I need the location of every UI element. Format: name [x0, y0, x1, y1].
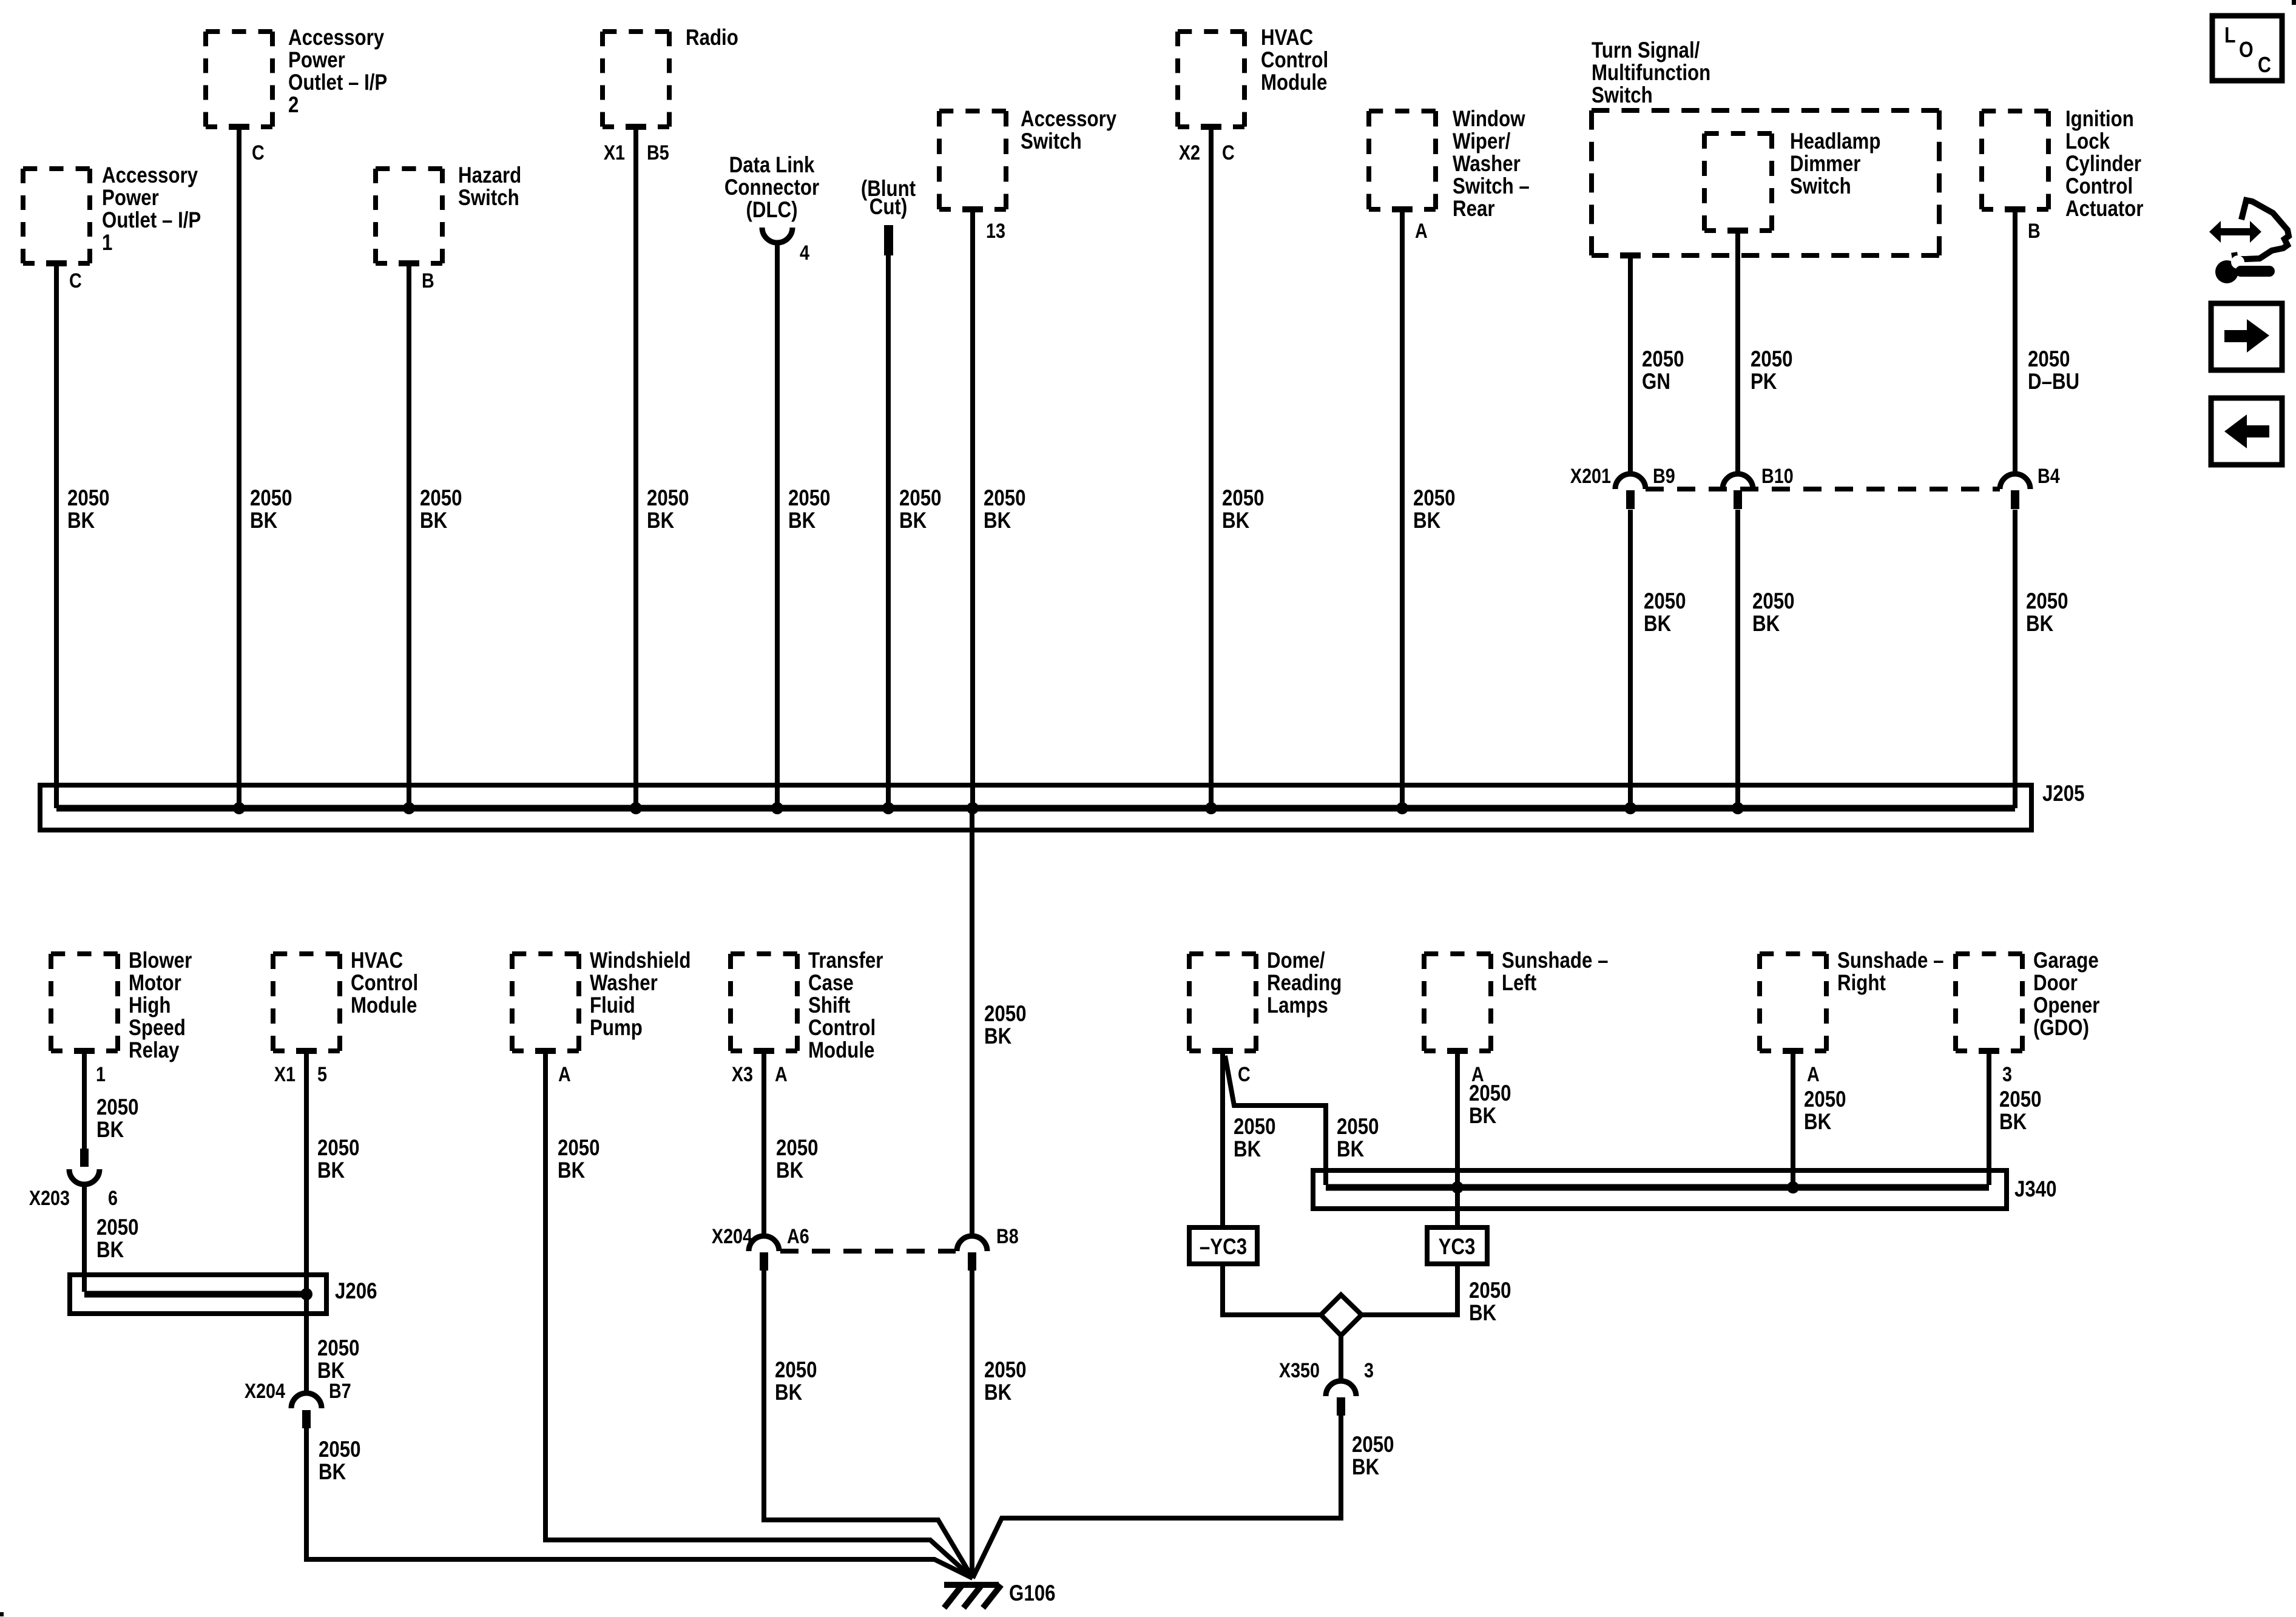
wire label 2050 BK (Sunshade Right): [1804, 1087, 1846, 1135]
wire label 2050 BK (HVAC mid): [317, 1136, 360, 1183]
svg-text:Dimmer: Dimmer: [1790, 152, 1860, 177]
pin labels X1 5 (HVAC bottom): [274, 1063, 327, 1086]
dashed connector line X201: [1646, 487, 2000, 491]
svg-text:Relay: Relay: [129, 1038, 179, 1063]
splice pack J205: [40, 785, 2031, 830]
wire label 2050 PK: [1751, 347, 1793, 394]
pin label A (Washer Pump): [558, 1063, 571, 1086]
svg-text:Window: Window: [1453, 107, 1525, 132]
wire 2050 BK: X350 to G106: [973, 1416, 1341, 1578]
svg-text:BK: BK: [558, 1158, 585, 1183]
wire 2050 BK: X201 B10 to J205: [1735, 510, 1740, 808]
wire label 2050 BK (APO1): [67, 486, 110, 533]
wire: Radio B5 to J205: [633, 129, 638, 808]
svg-text:Cylinder: Cylinder: [2065, 152, 2141, 177]
component box: Radio: [603, 25, 738, 132]
svg-text:BK: BK: [1804, 1110, 1831, 1135]
svg-text:High: High: [129, 993, 171, 1018]
svg-text:Turn Signal/: Turn Signal/: [1592, 38, 1700, 63]
svg-text:3: 3: [1364, 1359, 1374, 1382]
svg-text:Washer: Washer: [1453, 152, 1521, 177]
wire label 2050 BK (HVAC top): [1222, 486, 1264, 533]
connector X201 label: [1570, 465, 1611, 488]
svg-text:Reading: Reading: [1267, 971, 1342, 996]
component box: HVAC Control Module (X1): [273, 948, 418, 1056]
wire label 2050 BK (Dome left): [1234, 1115, 1276, 1162]
svg-text:Accessory: Accessory: [288, 25, 384, 50]
svg-text:GN: GN: [1642, 370, 1670, 394]
svg-text:Control: Control: [808, 1016, 876, 1041]
svg-text:Washer: Washer: [590, 971, 658, 996]
wire 2050 BK: X204 A6 to G106: [764, 1271, 973, 1578]
svg-text:BK: BK: [1469, 1301, 1496, 1326]
wire 2050 BK: X201 B9 to J205: [1628, 510, 1633, 808]
svg-text:2050: 2050: [2026, 589, 2068, 614]
wire 2050 BK: Washer Pump to G106: [545, 1053, 973, 1578]
svg-text:Speed: Speed: [129, 1016, 186, 1041]
label J206: [335, 1279, 377, 1304]
wire label 2050 BK (below J206): [317, 1336, 360, 1383]
svg-text:Door: Door: [2033, 971, 2078, 996]
svg-text:Data Link: Data Link: [729, 153, 815, 178]
wire 2050 BK: X201 B4 to J205: [2013, 510, 2017, 808]
svg-text:Lamps: Lamps: [1267, 993, 1328, 1018]
svg-text:2050: 2050: [96, 1215, 139, 1240]
icon: arrow left box: [2211, 398, 2282, 465]
component box: HVAC Control Module (X2): [1178, 25, 1328, 132]
svg-text:HVAC: HVAC: [351, 948, 403, 973]
component box: Sunshade - Left: [1424, 948, 1608, 1056]
svg-text:BK: BK: [420, 508, 447, 533]
svg-text:Right: Right: [1837, 971, 1886, 996]
wire label 2050 BK (A6 chain): [775, 1358, 817, 1405]
wire: blunt cut to J205: [886, 254, 891, 808]
wire label 2050 BK (below J205): [984, 1002, 1027, 1049]
wire: DLC 4 to J205: [775, 240, 780, 808]
svg-text:(GDO): (GDO): [2033, 1016, 2089, 1041]
svg-text:BK: BK: [984, 508, 1011, 533]
svg-text:Rear: Rear: [1453, 197, 1495, 221]
pin label C (APO2): [252, 141, 265, 164]
svg-text:BK: BK: [1222, 508, 1249, 533]
svg-text:2050: 2050: [984, 1002, 1027, 1027]
svg-text:2050: 2050: [788, 486, 831, 511]
label J340: [2014, 1177, 2057, 1202]
svg-text:5: 5: [317, 1063, 327, 1086]
svg-text:BK: BK: [899, 508, 927, 533]
svg-text:J206: J206: [335, 1279, 377, 1304]
svg-text:B9: B9: [1653, 465, 1675, 488]
pin label 1 (Blower Relay): [96, 1063, 106, 1086]
svg-text:B7: B7: [329, 1380, 351, 1403]
wire 2050 BK: X203 to J206: [82, 1182, 87, 1292]
wire label 2050 BK (below YC3): [1469, 1278, 1511, 1326]
svg-text:4: 4: [800, 241, 809, 265]
wire 2050 BK: Sunshade Right to J340: [1791, 1053, 1795, 1187]
connector X203 cavity 6: [29, 1149, 118, 1210]
svg-text:D–BU: D–BU: [2028, 370, 2079, 394]
pin label B (Ignition Lock): [2028, 220, 2041, 243]
svg-text:2050: 2050: [1234, 1115, 1276, 1139]
wire: Hazard B to J205: [407, 266, 411, 808]
component box: Accessory Power Outlet - I/P 2: [206, 25, 387, 132]
svg-text:X204: X204: [245, 1380, 286, 1403]
component box: Hazard Switch: [376, 163, 521, 268]
svg-text:O: O: [2239, 38, 2254, 62]
svg-text:Opener: Opener: [2033, 993, 2099, 1018]
svg-text:Ignition: Ignition: [2065, 107, 2134, 132]
svg-text:Actuator: Actuator: [2065, 197, 2144, 221]
svg-text:2050: 2050: [1337, 1115, 1379, 1139]
wire label 2050 BK (X350 chain): [1352, 1433, 1394, 1480]
svg-text:2050: 2050: [250, 486, 292, 511]
wire label 2050 BK (Radio): [647, 486, 689, 533]
svg-text:A: A: [775, 1063, 788, 1086]
svg-text:BK: BK: [319, 1460, 346, 1485]
svg-text:Outlet – I/P: Outlet – I/P: [288, 70, 387, 95]
svg-text:BK: BK: [776, 1158, 803, 1183]
junction dots on J340: [1451, 1181, 1799, 1193]
svg-text:2050: 2050: [317, 1136, 360, 1161]
svg-text:Sunshade –: Sunshade –: [1502, 948, 1608, 973]
splice pack J206: [70, 1275, 326, 1314]
component box: Accessory Switch: [939, 107, 1116, 214]
svg-text:BK: BK: [1752, 612, 1780, 636]
wire: -YC3 to diamond junction: [1223, 1266, 1321, 1315]
svg-text:X1: X1: [274, 1063, 295, 1086]
svg-text:A6: A6: [787, 1225, 809, 1248]
icon: power mirror adjust (arrow/outline/wrench): [2209, 200, 2289, 283]
svg-text:Switch: Switch: [1790, 174, 1851, 199]
wire label 2050 BK (B4): [2026, 589, 2068, 636]
wire label 2050 BK (Blower upper): [96, 1095, 139, 1143]
svg-text:Outlet – I/P: Outlet – I/P: [102, 208, 201, 233]
svg-text:6: 6: [108, 1187, 118, 1210]
svg-text:Garage: Garage: [2033, 948, 2099, 973]
icon: arrow right box: [2211, 303, 2282, 370]
svg-text:2050: 2050: [776, 1136, 819, 1161]
wire: APO2 C to J205: [237, 129, 241, 808]
svg-text:BK: BK: [2026, 612, 2053, 636]
svg-text:13: 13: [986, 220, 1005, 243]
svg-text:BK: BK: [317, 1158, 345, 1183]
svg-text:J205: J205: [2042, 781, 2085, 806]
wire 2050 BK: X204 B8 to G106: [970, 1271, 974, 1578]
svg-text:A: A: [1807, 1063, 1820, 1086]
svg-text:X3: X3: [732, 1063, 753, 1086]
wire label 2050 BK (B7 chain): [319, 1437, 361, 1485]
wire 2050 BK: Blower Relay to X203: [82, 1053, 87, 1151]
svg-text:Module: Module: [808, 1038, 874, 1063]
svg-text:A: A: [1415, 220, 1428, 243]
wire 2050 GN: Turn Signal switch to X201 B9: [1628, 258, 1633, 475]
svg-text:B4: B4: [2038, 465, 2060, 488]
component box: Transfer Case Shift Control Module: [731, 948, 883, 1063]
svg-text:BK: BK: [96, 1118, 124, 1143]
pin label C (Dome): [1238, 1063, 1251, 1086]
component: blunt cut terminal: [861, 177, 916, 255]
svg-text:Cut): Cut): [869, 195, 907, 220]
wire 2050 BK: GDO 3 to J340: [1987, 1053, 1991, 1185]
svg-text:2050: 2050: [775, 1358, 817, 1383]
connector X204 cavity B7: [245, 1380, 351, 1428]
wire 2050 PK: Headlamp Dimmer to X201 B10: [1735, 233, 1740, 475]
terminal YC3: [1427, 1227, 1487, 1264]
diamond junction node: [1321, 1295, 1362, 1335]
wire label 2050 BK (Sunshade Left): [1469, 1081, 1511, 1129]
svg-text:Power: Power: [288, 48, 345, 73]
wire: diamond to X350: [1339, 1335, 1343, 1382]
connector X204 cavity B8: [957, 1225, 1019, 1271]
svg-text:Switch –: Switch –: [1453, 174, 1530, 199]
svg-text:2050: 2050: [984, 1358, 1027, 1383]
svg-text:A: A: [558, 1063, 571, 1086]
splice pack J340: [1313, 1170, 2007, 1209]
svg-text:–YC3: –YC3: [1200, 1235, 1247, 1260]
svg-text:2050: 2050: [1222, 486, 1264, 511]
svg-text:Transfer: Transfer: [808, 948, 883, 973]
svg-text:2: 2: [288, 93, 299, 118]
pin label 13 (Accessory Switch): [986, 220, 1005, 243]
junction dot on J206: [300, 1288, 312, 1300]
terminal -YC3: [1189, 1227, 1257, 1264]
wire label 2050 BK (DLC): [788, 486, 831, 533]
svg-text:Module: Module: [351, 993, 417, 1018]
svg-text:2050: 2050: [96, 1095, 139, 1120]
svg-text:2050: 2050: [1413, 486, 1456, 511]
svg-text:Control: Control: [1261, 48, 1328, 73]
svg-text:C: C: [69, 269, 82, 292]
svg-text:X350: X350: [1279, 1359, 1320, 1382]
pin labels X2 C (HVAC top): [1179, 141, 1235, 164]
svg-text:BK: BK: [1234, 1137, 1261, 1162]
connector X350 cavity 3: [1279, 1359, 1374, 1416]
wire label 2050 BK (B9): [1644, 589, 1686, 636]
svg-text:2050: 2050: [319, 1437, 361, 1462]
svg-text:2050: 2050: [1804, 1087, 1846, 1112]
svg-text:BK: BK: [250, 508, 277, 533]
svg-text:BK: BK: [1352, 1455, 1379, 1480]
svg-text:Switch: Switch: [458, 186, 519, 211]
svg-text:Switch: Switch: [1592, 83, 1653, 108]
svg-text:Wiper/: Wiper/: [1453, 129, 1511, 154]
wire: Accessory Switch 13 to J205: [970, 212, 975, 808]
svg-text:BK: BK: [775, 1380, 802, 1405]
svg-text:BK: BK: [1413, 508, 1440, 533]
svg-text:(DLC): (DLC): [746, 198, 797, 223]
svg-text:J340: J340: [2014, 1177, 2057, 1202]
svg-text:YC3: YC3: [1439, 1235, 1476, 1260]
wire 2050 D-BU: Ignition Lock B to X201 B4: [2013, 212, 2017, 475]
component box: Window Wiper/Washer Switch - Rear: [1369, 107, 1530, 221]
pin label C (APO1): [69, 269, 82, 292]
svg-text:Headlamp: Headlamp: [1790, 129, 1880, 154]
svg-text:2050: 2050: [2028, 347, 2070, 372]
svg-text:Connector: Connector: [724, 175, 819, 200]
wire label 2050 D-BU: [2028, 347, 2079, 394]
component box: Garage Door Opener (GDO): [1956, 948, 2099, 1056]
pin label A (Window Wiper): [1415, 220, 1428, 243]
svg-text:2050: 2050: [647, 486, 689, 511]
wire label 2050 BK (B10): [1752, 589, 1795, 636]
connector X201 cavity B4: [2000, 465, 2060, 509]
svg-text:PK: PK: [1751, 370, 1777, 394]
svg-text:C: C: [2258, 53, 2271, 78]
svg-text:2050: 2050: [899, 486, 942, 511]
component box: Ignition Lock Cylinder Control Actuator: [1982, 107, 2144, 221]
svg-text:Shift: Shift: [808, 993, 850, 1018]
svg-text:X201: X201: [1570, 465, 1611, 488]
svg-text:2050: 2050: [558, 1136, 600, 1161]
svg-text:C: C: [1238, 1063, 1251, 1086]
pin label A (Sunshade Right): [1807, 1063, 1820, 1086]
svg-text:BK: BK: [647, 508, 674, 533]
svg-text:Dome/: Dome/: [1267, 948, 1325, 973]
component box: Headlamp Dimmer Switch: [1704, 129, 1880, 235]
pin labels X3 A (Transfer Case): [732, 1063, 788, 1086]
svg-text:Module: Module: [1261, 70, 1327, 95]
wire: Window Wiper A to J205: [1400, 212, 1405, 808]
component box: Accessory Power Outlet - I/P 1: [23, 163, 201, 268]
wire label 2050 BK (GDO): [1999, 1087, 2042, 1135]
wire label 2050 BK (Washer): [558, 1136, 600, 1183]
pin label 3 (GDO): [2002, 1063, 2012, 1086]
svg-text:BK: BK: [1999, 1110, 2027, 1135]
svg-text:Case: Case: [808, 971, 854, 996]
svg-text:BK: BK: [984, 1024, 1011, 1049]
svg-text:X203: X203: [29, 1187, 70, 1210]
svg-text:G106: G106: [1009, 1581, 1055, 1606]
svg-text:BK: BK: [67, 508, 95, 533]
wire label 2050 GN: [1642, 347, 1684, 394]
junction dots on J205: [233, 802, 1744, 814]
svg-text:Fluid: Fluid: [590, 993, 635, 1018]
dashed connector line X204: [780, 1249, 956, 1254]
wire label 2050 BK (Accessory Switch): [984, 486, 1026, 533]
wire label 2050 BK (Window Wiper): [1413, 486, 1456, 533]
component box: Windshield Washer Fluid Pump: [512, 948, 690, 1056]
svg-text:2050: 2050: [984, 486, 1026, 511]
wire label 2050 BK (Hazard): [420, 486, 462, 533]
wire: HVAC X2-C to J205: [1209, 129, 1214, 808]
svg-text:B8: B8: [996, 1225, 1019, 1248]
svg-text:2050: 2050: [1469, 1081, 1511, 1106]
svg-text:X1: X1: [604, 141, 625, 164]
svg-text:Accessory: Accessory: [1021, 107, 1116, 132]
svg-text:2050: 2050: [1999, 1087, 2042, 1112]
connector X201 cavity B9: [1615, 465, 1675, 509]
wire label 2050 BK (Dome branch): [1337, 1115, 1379, 1162]
wire: APO1 C to J205: [54, 266, 59, 808]
wire label 2050 BK (APO2): [250, 486, 292, 533]
svg-text:2050: 2050: [67, 486, 110, 511]
connector cup: DLC cavity 4: [762, 228, 792, 243]
page corner mark top-right: [2292, 0, 2296, 5]
svg-text:2050: 2050: [1352, 1433, 1394, 1457]
svg-text:2050: 2050: [1642, 347, 1684, 372]
svg-text:2050: 2050: [1751, 347, 1793, 372]
connector X204 cavity A6: [712, 1225, 809, 1271]
wire label 2050 BK (Blower lower): [96, 1215, 139, 1263]
component box: Turn Signal/Multifunction Switch: [1592, 38, 1939, 260]
svg-text:HVAC: HVAC: [1261, 25, 1313, 50]
component: Data Link Connector (DLC) label: [724, 153, 819, 223]
svg-text:B5: B5: [647, 141, 669, 164]
wire 2050 BK: X204 B7 to G106: [306, 1428, 973, 1578]
pin label B (Hazard): [422, 269, 434, 292]
svg-text:Motor: Motor: [129, 971, 181, 996]
svg-text:Control: Control: [2065, 174, 2133, 199]
label G106: [1009, 1581, 1055, 1606]
svg-text:2050: 2050: [1752, 589, 1795, 614]
svg-text:Switch: Switch: [1021, 129, 1082, 154]
svg-text:BK: BK: [1469, 1104, 1496, 1129]
svg-text:Hazard: Hazard: [458, 163, 521, 188]
svg-text:1: 1: [96, 1063, 106, 1086]
pin label A (Sunshade Left): [1471, 1063, 1484, 1086]
svg-text:Multifunction: Multifunction: [1592, 61, 1710, 86]
svg-text:BK: BK: [788, 508, 815, 533]
wire 2050 BK: Sunshade Left through J340 to YC3: [1455, 1053, 1460, 1227]
svg-text:Radio: Radio: [686, 25, 738, 50]
svg-text:L: L: [2224, 24, 2236, 48]
connector X201 cavity B10: [1723, 465, 1794, 509]
component box: Dome/Reading Lamps: [1189, 948, 1342, 1056]
svg-text:X2: X2: [1179, 141, 1200, 164]
svg-text:2050: 2050: [1469, 1278, 1511, 1303]
wire 2050 BK: HVAC X1-5 through J206: [304, 1053, 309, 1394]
svg-text:Left: Left: [1502, 971, 1536, 996]
label J205: [2042, 781, 2085, 806]
svg-text:Windshield: Windshield: [590, 948, 690, 973]
wire 2050 BK: J205 to X204 B8: [970, 808, 974, 1238]
wire label 2050 BK (B8 chain): [984, 1358, 1027, 1405]
svg-text:Accessory: Accessory: [102, 163, 198, 188]
component box: Blower Motor High Speed Relay: [51, 948, 192, 1063]
component box: Sunshade - Right: [1760, 948, 1943, 1056]
svg-text:2050: 2050: [317, 1336, 360, 1361]
wire label 2050 BK (blunt cut): [899, 486, 942, 533]
ground G106: [944, 1585, 1001, 1608]
svg-text:B: B: [2028, 220, 2041, 243]
wire 2050 BK: Dome C branch to J340: [1225, 1056, 1326, 1185]
svg-text:B10: B10: [1761, 465, 1794, 488]
svg-text:Sunshade –: Sunshade –: [1837, 948, 1943, 973]
wire label 2050 BK (Transfer): [776, 1136, 819, 1183]
svg-text:BK: BK: [96, 1238, 124, 1263]
svg-text:3: 3: [2002, 1063, 2012, 1086]
svg-text:1: 1: [102, 231, 112, 255]
svg-text:Lock: Lock: [2065, 129, 2110, 154]
wire 2050 BK: Transfer Case to X204 A6: [761, 1053, 766, 1238]
pin label 4 (DLC): [800, 241, 809, 265]
svg-text:BK: BK: [984, 1380, 1011, 1405]
svg-text:Pump: Pump: [590, 1016, 643, 1041]
svg-text:Control: Control: [351, 971, 418, 996]
svg-text:Blower: Blower: [129, 948, 192, 973]
wire 2050 BK: Dome C to -YC3: [1220, 1053, 1225, 1227]
svg-text:C: C: [1222, 141, 1235, 164]
pin labels X1 B5 (Radio): [604, 141, 669, 164]
wire 2050 BK: YC3 to diamond junction: [1362, 1266, 1457, 1315]
svg-text:2050: 2050: [1644, 589, 1686, 614]
svg-text:2050: 2050: [420, 486, 462, 511]
svg-text:BK: BK: [1644, 612, 1671, 636]
svg-text:BK: BK: [1337, 1137, 1364, 1162]
legend box LOC: [2212, 16, 2282, 81]
svg-text:C: C: [252, 141, 265, 164]
page corner mark: [0, 1612, 4, 1616]
